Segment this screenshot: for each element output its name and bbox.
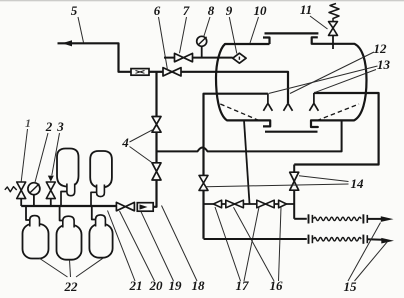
- lower bottle 1: [23, 224, 49, 259]
- vacuum bottle B (upper right): [90, 151, 112, 188]
- leader for label 11: [310, 16, 328, 29]
- svg-text:9: 9: [226, 3, 233, 18]
- fork (lever) on right chamber: [309, 93, 318, 111]
- vacuum gauge 2: [28, 183, 40, 206]
- svg-text:10: 10: [254, 3, 268, 18]
- svg-text:14: 14: [351, 176, 365, 191]
- svg-text:22: 22: [64, 279, 79, 294]
- coupling head (right outward triangle): [279, 200, 287, 208]
- fork (lever) on left chamber: [263, 94, 272, 111]
- dashed diaphragm line, right chamber: [317, 104, 359, 121]
- middle fork (lever): [284, 103, 293, 111]
- svg-text:20: 20: [149, 278, 164, 293]
- wire below valve 4b to filter 19 corner: [153, 180, 156, 207]
- wire: slanted drop from left chamber to coupling row: [244, 120, 250, 203]
- leader a for label 16: [234, 207, 275, 281]
- svg-text:2: 2: [45, 119, 53, 134]
- leader for label 8: [204, 17, 210, 37]
- valve 7 (gauge shut-off valve, upper bowtie): [175, 53, 193, 61]
- left chamber of unit: [204, 94, 268, 239]
- valve 20 (bowtie on rail): [116, 202, 134, 210]
- svg-text:12: 12: [374, 41, 388, 56]
- leader for label 2: [35, 133, 48, 183]
- wire: left manifold rail: [21, 205, 116, 207]
- svg-text:7: 7: [183, 3, 190, 18]
- filter (inline component on pipe): [131, 69, 149, 76]
- hose 1 (upper flexible hose): [294, 214, 381, 223]
- leader for label 1: [21, 129, 27, 182]
- hose 2 (lower flexible hose): [309, 235, 383, 244]
- gauge 8 (manometer): [197, 36, 207, 57]
- filter 19 (rect with wedge): [137, 203, 153, 212]
- svg-text:13: 13: [377, 57, 391, 72]
- svg-text:19: 19: [169, 278, 183, 293]
- wire: bottom rail (left wall to hose 2): [204, 238, 307, 240]
- leader for label 19: [141, 212, 174, 281]
- tank outline (vacuum unit body): [216, 33, 367, 131]
- valve 4a (upper): [152, 117, 161, 133]
- shutoff cock (bowtie 2): [257, 200, 274, 208]
- leader b for label 22: [70, 260, 71, 277]
- pressure regulator 1 (valve with spring): [17, 182, 26, 199]
- leader for label 18: [162, 206, 198, 282]
- leader b for label 4: [130, 147, 153, 164]
- wire: stem to lower bottle 2: [60, 206, 63, 221]
- flow arrow on pipe 5: [62, 40, 72, 46]
- svg-text:3: 3: [56, 119, 64, 134]
- svg-text:8: 8: [208, 3, 215, 18]
- leader a for label 15: [348, 223, 381, 282]
- leader a for label 22: [39, 258, 68, 277]
- lower bottle 2: [57, 225, 82, 260]
- valve 14 (vertical bowtie): [293, 165, 295, 173]
- leader a for label 14: [299, 176, 349, 182]
- wire: gauge branch pipe: [164, 57, 233, 59]
- wire: compressor discharge pipe (line 5): [58, 43, 132, 72]
- wire: rail R1 from valve 4 junction to right chamber (with hop over left wall): [157, 120, 342, 151]
- svg-text:16: 16: [270, 278, 284, 293]
- leader b for label 17: [244, 207, 259, 281]
- vacuum bottle A (upper left): [57, 149, 79, 187]
- wire: stem to lower bottle 1: [26, 206, 30, 220]
- wire: drop to valve 4: [155, 72, 157, 117]
- leader for label 12: [290, 52, 374, 94]
- leader b for label 14: [206, 184, 349, 187]
- leader c for label 22: [76, 258, 104, 277]
- wire between valves 4a and 4b: [155, 132, 157, 163]
- valve 6 (shut-off valve, lower bowtie): [163, 68, 181, 76]
- leader b for label 16: [279, 207, 282, 281]
- svg-text:15: 15: [344, 279, 358, 294]
- leader b for label 15: [355, 242, 388, 282]
- leader a for label 17: [215, 207, 241, 281]
- leader for label 5: [78, 17, 84, 43]
- leader a for label 4: [130, 130, 153, 142]
- valve on left wall (chamber drain valve): [199, 175, 208, 190]
- leader a for label 13: [269, 66, 378, 94]
- leader for label 6: [159, 17, 168, 70]
- wire: stem to lower bottle 3: [92, 206, 96, 220]
- svg-text:21: 21: [129, 278, 143, 293]
- svg-text:1: 1: [25, 116, 31, 130]
- leader b for label 13: [314, 70, 376, 93]
- valve 3 (with atmosphere arrow): [46, 182, 55, 199]
- svg-text:6: 6: [154, 3, 161, 18]
- leader for label 20: [120, 211, 155, 281]
- coupling head (left outward triangle): [213, 200, 221, 208]
- valve 4b (lower): [152, 163, 161, 180]
- leader for label 9: [229, 17, 237, 54]
- shutoff cock (bowtie 1): [226, 200, 244, 208]
- coupling row wires: [204, 203, 295, 205]
- leader for label 21: [108, 211, 136, 282]
- safety valve 11: [329, 4, 340, 50]
- svg-text:4: 4: [121, 135, 129, 150]
- right chamber of unit: [294, 93, 378, 165]
- leader for label 10: [250, 17, 259, 43]
- scan border artifact, top: [0, 0, 404, 2]
- dashed diaphragm line, left chamber: [220, 104, 261, 121]
- svg-text:5: 5: [71, 3, 78, 18]
- leader for label 3: [52, 133, 60, 175]
- wire: main delivery pipe into unit: [181, 72, 288, 104]
- svg-text:18: 18: [192, 278, 206, 293]
- wire: pipe from filter to valve 6: [149, 71, 163, 73]
- lower bottle 3: [89, 224, 112, 258]
- leader for label 7: [180, 17, 187, 53]
- component 9 (diamond fitting): [233, 53, 246, 63]
- svg-text:17: 17: [236, 278, 250, 293]
- svg-text:11: 11: [300, 2, 312, 17]
